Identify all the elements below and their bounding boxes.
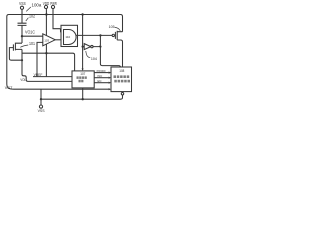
svg-text:VSS: VSS bbox=[19, 1, 26, 6]
capacitor C102 bbox=[18, 23, 27, 25]
wire inverter output up to gate-110 output wire bbox=[93, 35, 100, 46]
arrowhead into box 107 bbox=[82, 68, 84, 71]
wire op-amp output to gate 110 bbox=[55, 39, 63, 41]
wire op-amp inverting input to VREF line bbox=[37, 42, 43, 76]
wire from VSS terminal down to capacitor bbox=[21, 9, 23, 23]
wire node VO1C to op-amp + input bbox=[22, 35, 43, 37]
wire: VGT line + left edge + top rail + right drop to PMOS bbox=[7, 15, 123, 90]
terminal VSS (top) bbox=[20, 6, 23, 9]
node dot gate-source tie bbox=[21, 59, 23, 61]
wire rail down to box 107 (power-down line) bbox=[82, 15, 84, 71]
wire PWOFF arrow 107 to 108 bbox=[94, 72, 109, 74]
inverter U104 bbox=[84, 44, 91, 50]
wire gate 110 output to PMOS gate bbox=[76, 34, 112, 36]
svg-text:105: 105 bbox=[109, 24, 116, 29]
svg-text:107: 107 bbox=[80, 72, 85, 76]
wire VSS node vertical bbox=[40, 89, 42, 105]
gate 110 (AND shape) bbox=[64, 30, 77, 45]
node dot on gate-110 output wire bbox=[99, 34, 101, 36]
wire gate of Q101 tied to source bbox=[9, 48, 22, 61]
svg-text:VOL: VOL bbox=[20, 78, 26, 82]
node dot VDD on rail bbox=[45, 13, 47, 15]
op-amp U103 bbox=[43, 34, 55, 46]
svg-text:PWR: PWR bbox=[50, 1, 57, 6]
wire PWR terminal down then to gate 110 upper input bbox=[53, 9, 64, 33]
text blobs box 107 line 1 bbox=[77, 75, 131, 82]
svg-text:110: 110 bbox=[65, 35, 70, 39]
svg-text:INC: INC bbox=[98, 74, 104, 78]
text blobs box 107 line 2 bbox=[79, 80, 81, 83]
wire tap line to oscillator box 107 top bbox=[22, 53, 75, 71]
node dot VSS junction bbox=[40, 98, 42, 100]
svg-text:VSS: VSS bbox=[38, 109, 45, 113]
svg-text:VGT: VGT bbox=[5, 86, 13, 90]
node VO1C dot bbox=[21, 35, 23, 37]
node dot inverter input tap bbox=[82, 46, 84, 48]
svg-text:VO1C: VO1C bbox=[25, 30, 35, 35]
leader line label 104 bbox=[86, 51, 90, 57]
terminal VDD bbox=[44, 5, 47, 8]
svg-text:103: 103 bbox=[44, 38, 49, 42]
terminal VSS (bottom) bbox=[39, 105, 42, 108]
node dot inverter output junction bbox=[99, 46, 101, 48]
wire VREF line bbox=[33, 76, 72, 78]
svg-text:108: 108 bbox=[119, 69, 124, 73]
inverter bubble bbox=[91, 45, 93, 47]
box 107 oscillator bbox=[72, 71, 94, 88]
leader line label 101 bbox=[20, 45, 28, 47]
text blobs box 108 line 1 bbox=[114, 75, 117, 78]
node dot on tap line bbox=[45, 52, 47, 54]
svg-text:104: 104 bbox=[91, 56, 98, 61]
inverted pin bubble under box 108 bbox=[121, 93, 123, 95]
text blobs box 108 line 2 bbox=[114, 80, 117, 83]
box 108 control circuit bbox=[111, 67, 132, 92]
wire junction down to box 108 top bbox=[100, 47, 120, 68]
node dot on rail bbox=[81, 13, 83, 15]
wire bottom VSS rail bbox=[41, 95, 123, 99]
svg-text:EN: EN bbox=[98, 79, 102, 83]
wire INC arrow 107 to 108 bbox=[94, 77, 109, 79]
terminal PWR bbox=[51, 5, 54, 8]
svg-text:101: 101 bbox=[29, 41, 36, 46]
wire EN arrow 107 to 108 bbox=[94, 82, 109, 84]
arrowhead into box 108 (VGT line) bbox=[109, 88, 112, 90]
wire tap to inverter input bbox=[83, 46, 85, 48]
svg-text:100a: 100a bbox=[32, 3, 42, 8]
svg-text:PWOFF: PWOFF bbox=[97, 69, 106, 73]
wire VDD terminal down, continues through to VREF line bbox=[45, 9, 47, 77]
wire capacitor to node VO1C and down to NMOS drain bbox=[21, 25, 23, 43]
node dot box107-VSS rail bbox=[82, 98, 84, 100]
leader line label 105 bbox=[115, 27, 121, 31]
transistor Q101 (depletion NMOS) bbox=[13, 43, 22, 51]
svg-text:VDD: VDD bbox=[43, 1, 49, 6]
svg-text:VREF: VREF bbox=[34, 73, 43, 77]
box around gate 110 bbox=[61, 25, 78, 46]
wire Q101 source down with jog to VOL line bbox=[22, 49, 72, 81]
leader line label 100a bbox=[26, 7, 31, 11]
leader line label 102 bbox=[26, 18, 29, 21]
transistor Q105 (PMOS) bbox=[112, 34, 114, 36]
svg-text:102: 102 bbox=[29, 14, 36, 19]
wire box 107 bottom to VSS rail bbox=[82, 88, 84, 99]
